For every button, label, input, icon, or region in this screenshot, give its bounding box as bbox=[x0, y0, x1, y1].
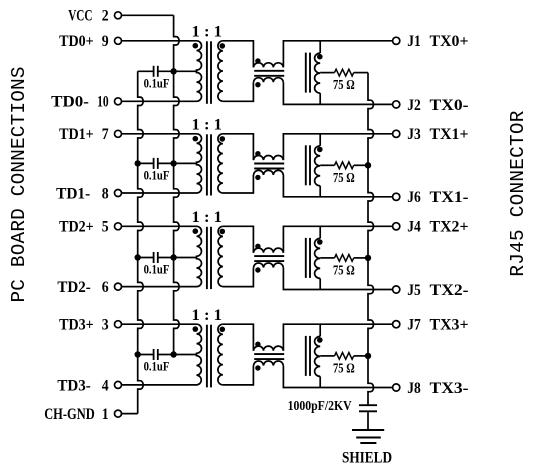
wire TD3+ to transformer primary top bbox=[122, 323, 197, 325]
svg-text:75 Ω: 75 Ω bbox=[333, 264, 355, 279]
pin TD3+ 3 (terminal) bbox=[59, 317, 121, 334]
autotransformer A4 bbox=[306, 324, 323, 387]
wire secondary top to choke ch3 bbox=[223, 226, 254, 252]
svg-text:1 : 1: 1 : 1 bbox=[192, 117, 223, 134]
common-mode choke L1 bbox=[254, 58, 285, 87]
transformer T4 1:1 bbox=[192, 307, 226, 387]
svg-text:1 : 1: 1 : 1 bbox=[192, 307, 223, 324]
pin TD0- 10 (terminal) bbox=[51, 94, 121, 111]
svg-text:1 : 1: 1 : 1 bbox=[192, 209, 223, 226]
wire choke bottom to J line ch3 bbox=[283, 268, 392, 290]
svg-text:TX1+: TX1+ bbox=[430, 126, 469, 143]
wire secondary top to choke ch4 bbox=[223, 324, 254, 351]
wire TD3- to transformer primary bottom bbox=[122, 384, 197, 386]
svg-text:6: 6 bbox=[102, 279, 109, 296]
svg-text:TX1-: TX1- bbox=[430, 189, 469, 206]
capacitor C5 1000pF/2KV bbox=[288, 399, 377, 430]
node: CH-GND bus junction ch3 bbox=[135, 254, 141, 260]
svg-text:TX3-: TX3- bbox=[430, 380, 469, 397]
svg-text:0.1uF: 0.1uF bbox=[144, 76, 170, 90]
svg-text:9: 9 bbox=[102, 33, 109, 50]
pin TD2- 6 (terminal) bbox=[57, 279, 121, 296]
wire capacitor to VCC junction / primary center tap ch2 bbox=[158, 162, 197, 164]
wire choke bottom to J line ch2 bbox=[283, 175, 392, 197]
svg-text:RJ45 CONNECTOR: RJ45 CONNECTOR bbox=[507, 110, 529, 276]
svg-text:0.1uF: 0.1uF bbox=[144, 169, 170, 183]
wire choke top to J line ch2 bbox=[283, 134, 392, 160]
pin VCC 2 (terminal) bbox=[68, 8, 121, 25]
svg-text:7: 7 bbox=[102, 126, 109, 143]
svg-text:CH-GND: CH-GND bbox=[44, 406, 94, 423]
autotransformer A3 bbox=[306, 226, 323, 289]
wire choke bottom to J line ch1 bbox=[283, 82, 392, 104]
svg-text:VCC: VCC bbox=[68, 8, 92, 25]
pin J6 TX1- (terminal) bbox=[393, 189, 469, 206]
svg-text:TX2+: TX2+ bbox=[430, 219, 469, 236]
wire VCC pin to VCC bus bbox=[122, 14, 174, 16]
svg-text:0.1uF: 0.1uF bbox=[144, 360, 170, 374]
side label: PC BOARD CONNECTIONS bbox=[8, 67, 30, 303]
wire choke top to J line ch3 bbox=[283, 226, 392, 252]
net VCC bus (vertical) with wire hops bbox=[174, 15, 180, 354]
node: VCC junction ch2 bbox=[170, 160, 176, 166]
svg-text:5: 5 bbox=[102, 219, 109, 236]
wire secondary bottom to choke ch3 bbox=[223, 268, 254, 287]
svg-text:75 Ω: 75 Ω bbox=[333, 78, 355, 93]
svg-text:PC BOARD CONNECTIONS: PC BOARD CONNECTIONS bbox=[8, 67, 30, 303]
node: VCC junction ch4 bbox=[170, 351, 176, 357]
svg-text:TX0+: TX0+ bbox=[430, 33, 469, 50]
pin J2 TX0- (terminal) bbox=[393, 97, 469, 114]
svg-text:TD0-: TD0- bbox=[51, 94, 89, 111]
wire capacitor to VCC junction / primary center tap ch4 bbox=[158, 354, 197, 356]
wire TD2+ to transformer primary top bbox=[122, 225, 197, 227]
svg-text:TD1-: TD1- bbox=[56, 185, 90, 202]
transformer T1 1:1 bbox=[192, 24, 226, 104]
resistor R3 75 ohm bbox=[320, 254, 368, 278]
wire TD0- to transformer primary bottom bbox=[122, 100, 197, 102]
svg-text:J1: J1 bbox=[407, 33, 421, 50]
svg-text:TD2+: TD2+ bbox=[59, 219, 94, 236]
pin J4 TX2+ (terminal) bbox=[393, 219, 469, 236]
node: termination bus junction ch3 bbox=[365, 255, 371, 261]
pin TD1- 8 (terminal) bbox=[56, 185, 121, 202]
net CH-GND bus (vertical) with wire hops bbox=[138, 71, 144, 413]
pin J7 TX3+ (terminal) bbox=[393, 317, 469, 334]
wire TD1- to transformer primary bottom bbox=[122, 192, 197, 194]
pin J5 TX2- (terminal) bbox=[393, 282, 469, 299]
svg-text:J5: J5 bbox=[407, 282, 421, 299]
autotransformer A1 bbox=[306, 41, 323, 105]
svg-text:J7: J7 bbox=[407, 317, 421, 334]
resistor R1 75 ohm bbox=[320, 69, 368, 93]
node: termination bus junction ch4 bbox=[365, 353, 371, 359]
resistor R4 75 ohm bbox=[320, 353, 368, 377]
svg-text:TD3-: TD3- bbox=[57, 377, 90, 394]
wire capacitor to VCC junction / primary center tap ch1 bbox=[158, 70, 197, 72]
wire secondary bottom to choke ch4 bbox=[223, 366, 254, 385]
svg-text:75 Ω: 75 Ω bbox=[333, 171, 355, 186]
transformer T3 1:1 bbox=[192, 209, 226, 289]
pin TD0+ 9 (terminal) bbox=[59, 33, 121, 50]
wire choke top to J line ch1 bbox=[283, 41, 392, 68]
wire choke top to J line ch4 bbox=[283, 324, 392, 351]
transformer T2 1:1 bbox=[192, 117, 226, 196]
autotransformer A2 bbox=[306, 134, 323, 197]
svg-text:TD1+: TD1+ bbox=[59, 126, 94, 143]
svg-text:J4: J4 bbox=[407, 219, 421, 236]
svg-text:SHIELD: SHIELD bbox=[342, 449, 392, 466]
svg-text:8: 8 bbox=[102, 185, 109, 202]
resistor R2 75 ohm bbox=[320, 162, 368, 186]
common-mode choke L4 bbox=[254, 342, 285, 371]
wire TD1+ to transformer primary top bbox=[122, 133, 197, 135]
wire capacitor to VCC junction / primary center tap ch3 bbox=[158, 257, 197, 259]
svg-text:10: 10 bbox=[97, 94, 109, 111]
node: VCC junction ch3 bbox=[170, 254, 176, 260]
node: VCC junction ch1 bbox=[170, 68, 176, 74]
net termination bus (vertical) with wire hops bbox=[368, 73, 374, 405]
common-mode choke L3 bbox=[254, 244, 285, 273]
common-mode choke L2 bbox=[254, 151, 285, 180]
wire secondary bottom to choke ch2 bbox=[223, 175, 254, 193]
pin J1 TX0+ (terminal) bbox=[393, 33, 469, 50]
svg-text:1 : 1: 1 : 1 bbox=[192, 24, 223, 41]
wire TD2- to transformer primary bottom bbox=[122, 286, 197, 288]
ground SHIELD bbox=[342, 430, 392, 466]
wire CH-GND pin to ground bus bbox=[122, 413, 138, 415]
capacitor C3 0.1uF bbox=[138, 252, 170, 277]
svg-text:J8: J8 bbox=[407, 380, 421, 397]
svg-text:TD3+: TD3+ bbox=[59, 317, 94, 334]
svg-text:J6: J6 bbox=[407, 189, 421, 206]
svg-text:TX3+: TX3+ bbox=[430, 317, 469, 334]
svg-text:TX2-: TX2- bbox=[430, 282, 469, 299]
svg-text:TX0-: TX0- bbox=[430, 97, 469, 114]
pin TD2+ 5 (terminal) bbox=[59, 219, 121, 236]
svg-text:TD0+: TD0+ bbox=[59, 33, 94, 50]
pin J3 TX1+ (terminal) bbox=[393, 126, 469, 143]
wire TD0+ to transformer primary top bbox=[122, 40, 197, 42]
node: CH-GND bus junction ch2 bbox=[135, 160, 141, 166]
svg-text:0.1uF: 0.1uF bbox=[144, 263, 170, 277]
svg-text:1: 1 bbox=[102, 406, 109, 423]
capacitor C2 0.1uF bbox=[138, 158, 170, 183]
capacitor C1 0.1uF bbox=[138, 66, 170, 91]
pin CH-GND 1 (terminal) bbox=[44, 406, 121, 423]
capacitor C4 0.1uF bbox=[138, 349, 170, 374]
svg-text:2: 2 bbox=[102, 8, 109, 25]
side label: RJ45 CONNECTOR bbox=[507, 110, 529, 276]
pin TD1+ 7 (terminal) bbox=[59, 126, 121, 143]
svg-text:J3: J3 bbox=[407, 126, 421, 143]
svg-text:TD2-: TD2- bbox=[57, 279, 90, 296]
svg-text:3: 3 bbox=[102, 317, 109, 334]
svg-text:J2: J2 bbox=[407, 97, 421, 114]
svg-text:1000pF/2KV: 1000pF/2KV bbox=[288, 399, 352, 414]
node: termination bus junction ch2 bbox=[365, 162, 371, 168]
svg-text:75 Ω: 75 Ω bbox=[333, 362, 355, 377]
pin TD3- 4 (terminal) bbox=[57, 377, 121, 394]
pin J8 TX3- (terminal) bbox=[393, 380, 469, 397]
wire secondary top to choke ch2 bbox=[223, 134, 254, 160]
svg-text:4: 4 bbox=[102, 377, 109, 394]
node: CH-GND bus junction ch4 bbox=[135, 351, 141, 357]
wire secondary top to choke ch1 bbox=[223, 41, 254, 68]
wire choke bottom to J line ch4 bbox=[283, 366, 392, 388]
wire secondary bottom to choke ch1 bbox=[223, 82, 254, 101]
